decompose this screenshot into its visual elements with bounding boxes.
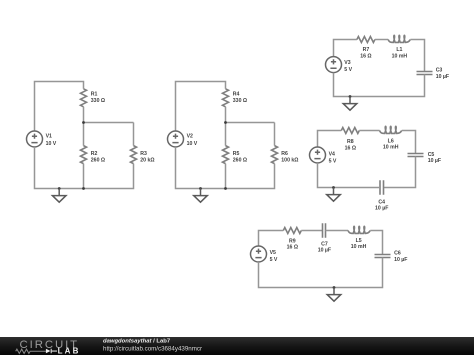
svg-text:dawgdontsaythat / Lab7: dawgdontsaythat / Lab7 bbox=[103, 338, 171, 344]
inductor L5 bbox=[348, 226, 370, 233]
svg-text:V2: V2 bbox=[187, 134, 193, 140]
svg-text:C5: C5 bbox=[428, 152, 435, 158]
resistor R4 bbox=[223, 89, 229, 107]
svg-text:10 V: 10 V bbox=[46, 141, 57, 147]
resistor R3 bbox=[131, 146, 137, 164]
svg-text:R5: R5 bbox=[233, 151, 240, 157]
wire bbox=[35, 82, 84, 132]
svg-text:16 Ω: 16 Ω bbox=[360, 53, 371, 59]
svg-text:20 kΩ: 20 kΩ bbox=[140, 158, 154, 164]
voltage source V5 bbox=[251, 246, 267, 262]
resistor R8 bbox=[341, 128, 359, 134]
wire bbox=[226, 107, 275, 146]
svg-text:100 kΩ: 100 kΩ bbox=[281, 158, 298, 164]
resistor R5 bbox=[223, 146, 229, 164]
wire bbox=[35, 147, 134, 189]
svg-text:16 Ω: 16 Ω bbox=[287, 245, 298, 251]
junction bbox=[224, 187, 227, 190]
junction bbox=[199, 187, 202, 190]
svg-text:L5: L5 bbox=[356, 238, 362, 244]
wire bbox=[402, 131, 416, 154]
inductor L6 bbox=[380, 126, 402, 133]
wire bbox=[318, 131, 342, 148]
junction bbox=[224, 121, 227, 124]
svg-text:10 µF: 10 µF bbox=[436, 74, 449, 80]
svg-text:R3: R3 bbox=[140, 151, 147, 157]
svg-text:10 µF: 10 µF bbox=[394, 257, 407, 263]
svg-text:R4: R4 bbox=[233, 91, 240, 97]
svg-text:260 Ω: 260 Ω bbox=[233, 158, 247, 164]
wire bbox=[370, 231, 382, 255]
wire bbox=[133, 123, 135, 146]
capacitor C5 bbox=[408, 154, 424, 157]
resistor R9 bbox=[283, 228, 301, 234]
svg-text:C3: C3 bbox=[436, 68, 443, 74]
wire bbox=[318, 163, 381, 188]
voltage source V4 bbox=[310, 147, 326, 163]
wire bbox=[359, 130, 379, 132]
svg-text:R8: R8 bbox=[347, 139, 354, 145]
voltage source V1 bbox=[27, 131, 43, 147]
resistor R7 bbox=[357, 37, 375, 43]
svg-text:http://circuitlab.com/c3684y43: http://circuitlab.com/c3684y439nmcr bbox=[103, 346, 202, 353]
voltage source V3 bbox=[326, 57, 342, 73]
svg-text:V4: V4 bbox=[329, 151, 335, 157]
logo resistor zigzag bbox=[16, 349, 46, 353]
svg-text:10 µF: 10 µF bbox=[318, 248, 331, 254]
ground bbox=[327, 188, 341, 202]
wire bbox=[259, 258, 383, 288]
junction bbox=[58, 187, 61, 190]
svg-text:C6: C6 bbox=[394, 251, 401, 257]
capacitor C3 bbox=[417, 72, 433, 75]
junction bbox=[82, 121, 85, 124]
svg-text:R1: R1 bbox=[91, 91, 98, 97]
ground bbox=[52, 189, 66, 203]
wire bbox=[84, 107, 134, 146]
svg-text:10 µF: 10 µF bbox=[428, 158, 441, 164]
svg-text:5 V: 5 V bbox=[344, 67, 352, 73]
footer bar bbox=[0, 337, 474, 355]
junction bbox=[333, 286, 336, 289]
resistor R6 bbox=[272, 146, 278, 164]
svg-text:V5: V5 bbox=[270, 250, 276, 256]
svg-text:V3: V3 bbox=[344, 60, 350, 66]
svg-text:R9: R9 bbox=[289, 239, 296, 245]
svg-text:10 mH: 10 mH bbox=[383, 145, 399, 151]
svg-text:L6: L6 bbox=[388, 138, 394, 144]
svg-text:260 Ω: 260 Ω bbox=[91, 158, 105, 164]
svg-text:L1: L1 bbox=[396, 47, 402, 53]
svg-text:C4: C4 bbox=[378, 199, 385, 205]
wire bbox=[384, 157, 416, 188]
svg-text:330 Ω: 330 Ω bbox=[233, 98, 247, 104]
wire bbox=[274, 123, 276, 146]
voltage source V2 bbox=[168, 131, 184, 147]
wire bbox=[326, 230, 349, 232]
capacitor C4 bbox=[380, 180, 384, 194]
ground bbox=[327, 288, 341, 302]
capacitor C6 bbox=[375, 255, 391, 258]
wire bbox=[259, 231, 284, 247]
wire bbox=[176, 147, 275, 189]
junction bbox=[82, 187, 85, 190]
wire bbox=[301, 230, 322, 232]
svg-text:V1: V1 bbox=[46, 134, 52, 140]
inductor L1 bbox=[388, 35, 410, 42]
svg-text:C7: C7 bbox=[321, 242, 328, 248]
svg-text:5 V: 5 V bbox=[329, 158, 337, 164]
svg-text:10 µF: 10 µF bbox=[375, 206, 388, 212]
svg-text:R2: R2 bbox=[91, 151, 98, 157]
wire bbox=[334, 40, 357, 57]
ground bbox=[194, 189, 208, 203]
junction bbox=[332, 186, 335, 189]
resistor R2 bbox=[81, 146, 87, 164]
junction bbox=[349, 95, 352, 98]
wire bbox=[176, 82, 226, 132]
svg-text:R6: R6 bbox=[281, 151, 288, 157]
ground bbox=[343, 97, 357, 111]
logo diode bar bbox=[51, 349, 57, 353]
svg-text:10 mH: 10 mH bbox=[392, 53, 408, 59]
svg-text:5 V: 5 V bbox=[270, 257, 278, 263]
svg-text:330 Ω: 330 Ω bbox=[91, 98, 105, 104]
svg-text:R7: R7 bbox=[363, 47, 370, 53]
resistor R1 bbox=[81, 89, 87, 107]
svg-text:10 V: 10 V bbox=[187, 141, 198, 147]
wire bbox=[410, 40, 424, 72]
wire bbox=[375, 39, 388, 41]
svg-text:LAB: LAB bbox=[58, 347, 81, 355]
logo diode arrow bbox=[46, 349, 51, 353]
capacitor C7 bbox=[323, 223, 326, 237]
wire bbox=[334, 73, 425, 97]
svg-text:10 mH: 10 mH bbox=[351, 244, 367, 250]
svg-text:16 Ω: 16 Ω bbox=[345, 145, 356, 151]
